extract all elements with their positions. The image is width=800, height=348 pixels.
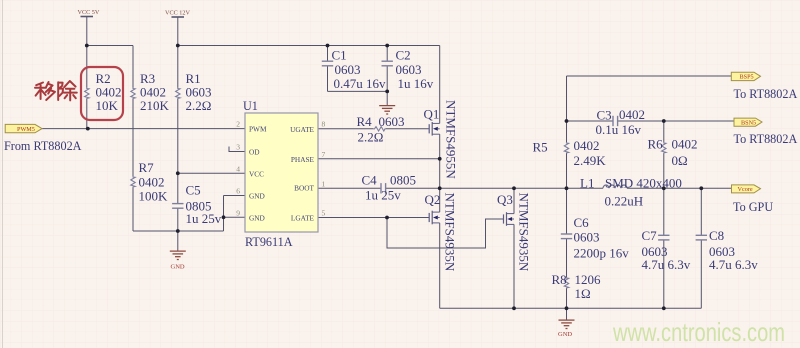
node C5/rail crossing <box>176 229 180 233</box>
node C2 top <box>385 44 389 48</box>
wire C1 column <box>327 46 329 62</box>
wire ground rail <box>440 307 702 309</box>
wire VCC12V stem <box>177 17 179 46</box>
svg-text:LGATE: LGATE <box>291 214 315 223</box>
wire Q3 source <box>513 224 515 308</box>
svg-text:0.22uH: 0.22uH <box>605 194 644 209</box>
node Q3 source rail <box>512 306 516 310</box>
svg-text:1: 1 <box>322 179 326 188</box>
svg-text:From RT8802A: From RT8802A <box>4 139 82 153</box>
node R8 rail <box>565 306 569 310</box>
wire VCC5V to R3 <box>87 45 133 47</box>
node C3/BSN5/R6 <box>662 119 666 123</box>
wire C8 bottom <box>700 240 702 308</box>
inductor L1 labels <box>580 176 682 209</box>
resistor R5 <box>533 138 607 168</box>
wire C2 bottom <box>386 66 388 92</box>
svg-text:R7: R7 <box>139 160 155 175</box>
svg-text:10K: 10K <box>96 98 119 113</box>
capacitor C3 <box>596 107 646 137</box>
node VCC12V rail <box>176 44 180 48</box>
svg-text:PHASE: PHASE <box>291 155 315 164</box>
svg-text:1206: 1206 <box>575 272 602 287</box>
svg-text:0.47u 16v: 0.47u 16v <box>334 76 387 91</box>
svg-text:0Ω: 0Ω <box>672 153 688 168</box>
wire VCC pin4 <box>178 172 245 174</box>
op-amp U1 chip body RT9611A <box>236 99 325 249</box>
svg-text:L1: L1 <box>580 176 594 191</box>
wire bottom-left rail <box>133 230 224 232</box>
svg-text:C4: C4 <box>362 173 378 188</box>
capacitor C4 <box>362 173 417 203</box>
wire R1 column top <box>177 46 179 88</box>
node LGATE branch <box>385 216 389 220</box>
wire R6 bottom <box>663 154 665 189</box>
node GND pin9 <box>222 215 226 219</box>
svg-text:C8: C8 <box>709 228 724 243</box>
wire Q1 source to phase <box>439 134 441 188</box>
resistor R7 <box>131 160 168 204</box>
svg-text:UGATE: UGATE <box>290 125 314 134</box>
svg-text:4: 4 <box>236 164 240 173</box>
wire gnd stub under C2 <box>386 91 388 105</box>
capacitor C1 <box>322 48 386 92</box>
wire R5 top <box>566 121 568 142</box>
node C1 top <box>326 44 330 48</box>
wire R8 bottom to ground <box>566 289 568 320</box>
svg-text:C1: C1 <box>332 48 347 63</box>
resistor R3 <box>131 71 170 113</box>
svg-text:BSN5: BSN5 <box>741 119 756 126</box>
svg-text:0805: 0805 <box>390 173 416 188</box>
port flag Vcore <box>732 185 761 193</box>
port flag BSP5 <box>731 72 760 81</box>
svg-text:GND: GND <box>249 213 265 222</box>
svg-text:1Ω: 1Ω <box>575 286 591 301</box>
svg-text:C3: C3 <box>597 108 612 123</box>
svg-text:0402: 0402 <box>672 137 698 152</box>
wire GND pin9 <box>224 216 246 218</box>
wire VCC5V stem <box>86 17 88 46</box>
wire Q2 drain <box>439 188 441 212</box>
svg-text:0.1u 16v: 0.1u 16v <box>596 122 642 137</box>
svg-text:1u 16v: 1u 16v <box>398 76 434 91</box>
node R5/C6 phase <box>565 186 569 190</box>
transistor Q1 <box>424 100 459 179</box>
node phase column <box>438 186 442 190</box>
svg-text:R8: R8 <box>552 272 567 287</box>
svg-text:9: 9 <box>236 208 240 217</box>
svg-text:0603: 0603 <box>379 114 405 129</box>
wire LGATE to Q2 gate <box>318 217 430 219</box>
svg-text:8: 8 <box>322 120 326 129</box>
wire LGATE dogleg to Q3 gate <box>387 218 504 249</box>
wire C6 top <box>566 188 568 234</box>
svg-text:C6: C6 <box>574 215 590 230</box>
resistor R4 <box>357 114 405 145</box>
svg-text:0402: 0402 <box>574 138 600 153</box>
svg-text:0402: 0402 <box>619 107 645 122</box>
svg-text:OD: OD <box>249 148 260 157</box>
wire R6 top <box>663 121 665 142</box>
svg-text:www.cntronics.com: www.cntronics.com <box>612 317 785 347</box>
wire R2 bottom <box>86 99 88 129</box>
svg-text:U1: U1 <box>243 99 258 113</box>
svg-text:GND: GND <box>558 331 572 338</box>
power flag VCC 5V <box>78 9 100 17</box>
inductor L1 coil <box>603 185 627 188</box>
svg-text:To RT8802A: To RT8802A <box>734 87 798 101</box>
svg-text:2200p 16v: 2200p 16v <box>574 246 630 261</box>
wire UGATE to R4 <box>318 128 373 130</box>
svg-text:0603: 0603 <box>335 62 361 77</box>
svg-text:RT9611A: RT9611A <box>245 235 293 249</box>
svg-text:C2: C2 <box>396 48 411 63</box>
svg-text:210K: 210K <box>140 98 170 113</box>
svg-text:1u 25v: 1u 25v <box>186 211 222 226</box>
wire C4 to phase column <box>386 187 440 189</box>
wire C3 left <box>567 120 614 122</box>
wire GND riser <box>223 196 225 232</box>
svg-text:2: 2 <box>236 120 240 129</box>
capacitor C5 <box>172 183 222 227</box>
svg-text:4.7u 6.3v: 4.7u 6.3v <box>642 257 691 272</box>
svg-text:2.2Ω: 2.2Ω <box>358 130 384 145</box>
svg-text:BSP5: BSP5 <box>740 74 754 81</box>
node BSP5/C3 <box>565 119 569 123</box>
svg-text:NTMFS4935N: NTMFS4935N <box>443 193 458 272</box>
svg-text:0603: 0603 <box>396 62 422 77</box>
resistor R2 <box>85 71 122 113</box>
svg-text:0603: 0603 <box>574 230 600 245</box>
svg-text:5: 5 <box>322 209 326 218</box>
resistor R8 <box>552 272 602 301</box>
node Q3 drain <box>512 186 516 190</box>
wire R3 column <box>132 46 134 88</box>
svg-text:NTMFS4935N: NTMFS4935N <box>517 193 532 272</box>
wire C7 bottom <box>663 240 665 308</box>
capacitor C2 <box>382 48 434 92</box>
node PHASE pin7 <box>438 157 442 161</box>
node C1C2 gnd <box>385 90 389 94</box>
svg-text:To GPU: To GPU <box>733 200 773 214</box>
node VCC pin4 <box>176 171 180 175</box>
node C8 vcore <box>699 186 703 190</box>
node PWM/R2 <box>86 127 90 131</box>
wire R3-R7 link <box>132 99 134 176</box>
sheet border <box>2 0 4 348</box>
node VCC5V/R3 <box>85 44 89 48</box>
capacitor C6 <box>561 215 629 261</box>
wire BOOT to C4 <box>318 187 381 189</box>
node R6/C7 vcore <box>662 186 666 190</box>
svg-text:R5: R5 <box>533 140 548 155</box>
svg-text:PWM5: PWM5 <box>17 126 35 133</box>
wire C6 to R8 <box>566 239 568 277</box>
svg-text:R4: R4 <box>357 114 373 129</box>
wire PHASE pin7 <box>318 158 440 160</box>
wire C2 column <box>386 46 388 62</box>
annotation 移除 (remove) <box>35 81 77 100</box>
transistor Q3 <box>497 192 532 272</box>
svg-text:2.2Ω: 2.2Ω <box>186 98 212 113</box>
resistor R1 <box>176 71 212 113</box>
wire BSP5 column <box>566 76 568 121</box>
wire phase line <box>440 187 603 189</box>
wire R2 column <box>86 46 88 88</box>
wire Q3 drain <box>513 188 515 213</box>
svg-text:Q3: Q3 <box>497 192 513 207</box>
capacitor C7 <box>642 228 691 272</box>
transistor Q2 <box>425 192 458 272</box>
wire R5 bottom <box>566 154 568 189</box>
wire C8 top <box>700 188 702 235</box>
red highlight box around R2 <box>81 67 123 120</box>
ground under R8 <box>558 320 575 338</box>
svg-text:C7: C7 <box>642 228 658 243</box>
svg-text:VCC 5V: VCC 5V <box>78 9 100 16</box>
ground under C5 <box>170 251 186 270</box>
wire Q1 drain <box>439 46 441 124</box>
svg-text:VCC 12V: VCC 12V <box>165 10 190 17</box>
svg-text:PWM: PWM <box>249 125 267 134</box>
wire C7 top <box>663 188 665 235</box>
wire BSP5 <box>567 75 733 77</box>
svg-text:Q2: Q2 <box>425 192 441 207</box>
svg-text:Vcore: Vcore <box>738 186 753 193</box>
svg-text:To RT8802A: To RT8802A <box>734 132 798 146</box>
wire top rail <box>178 45 440 47</box>
wire R4 to Q1 gate <box>386 128 430 130</box>
node C7 rail <box>662 306 666 310</box>
svg-text:VCC: VCC <box>249 169 264 178</box>
svg-text:BOOT: BOOT <box>294 184 314 193</box>
wire C5 bottom to ground <box>177 208 179 250</box>
wire Q2 source <box>439 223 441 308</box>
svg-text:C5: C5 <box>186 183 201 198</box>
ground under C1/C2 <box>379 106 395 114</box>
port flag BSN5 <box>734 118 762 126</box>
svg-text:Q1: Q1 <box>424 107 440 122</box>
wire vcore line <box>627 187 732 189</box>
power flag VCC 12V <box>165 10 190 18</box>
svg-text:3: 3 <box>236 143 240 152</box>
svg-text:4.7u 6.3v: 4.7u 6.3v <box>709 257 758 272</box>
wire PWM5 to pin2 <box>40 128 245 130</box>
svg-text:0402: 0402 <box>139 175 165 190</box>
wire R7 bottom <box>132 188 134 232</box>
wire GND pin6 <box>224 195 246 197</box>
wire C1 bottom <box>327 66 329 92</box>
svg-text:SMD 420x400: SMD 420x400 <box>605 176 682 191</box>
svg-text:7: 7 <box>322 150 326 159</box>
svg-text:100K: 100K <box>139 189 169 204</box>
port flag PWM5 <box>5 124 42 132</box>
wire OD stub <box>229 147 245 152</box>
svg-text:1u 25v: 1u 25v <box>365 188 401 203</box>
wire C1-C2 bottom link <box>328 90 388 92</box>
resistor R6 <box>648 137 698 169</box>
wire R1 to C5 <box>177 99 179 204</box>
capacitor C8 <box>696 228 759 272</box>
wire C3 to BSN5 <box>618 120 734 122</box>
svg-text:NTMFS4955N: NTMFS4955N <box>444 100 459 179</box>
svg-text:2.49K: 2.49K <box>574 153 607 168</box>
svg-text:6: 6 <box>236 187 240 196</box>
svg-text:GND: GND <box>249 192 265 201</box>
svg-text:GND: GND <box>171 264 185 271</box>
svg-text:R6: R6 <box>648 137 664 152</box>
